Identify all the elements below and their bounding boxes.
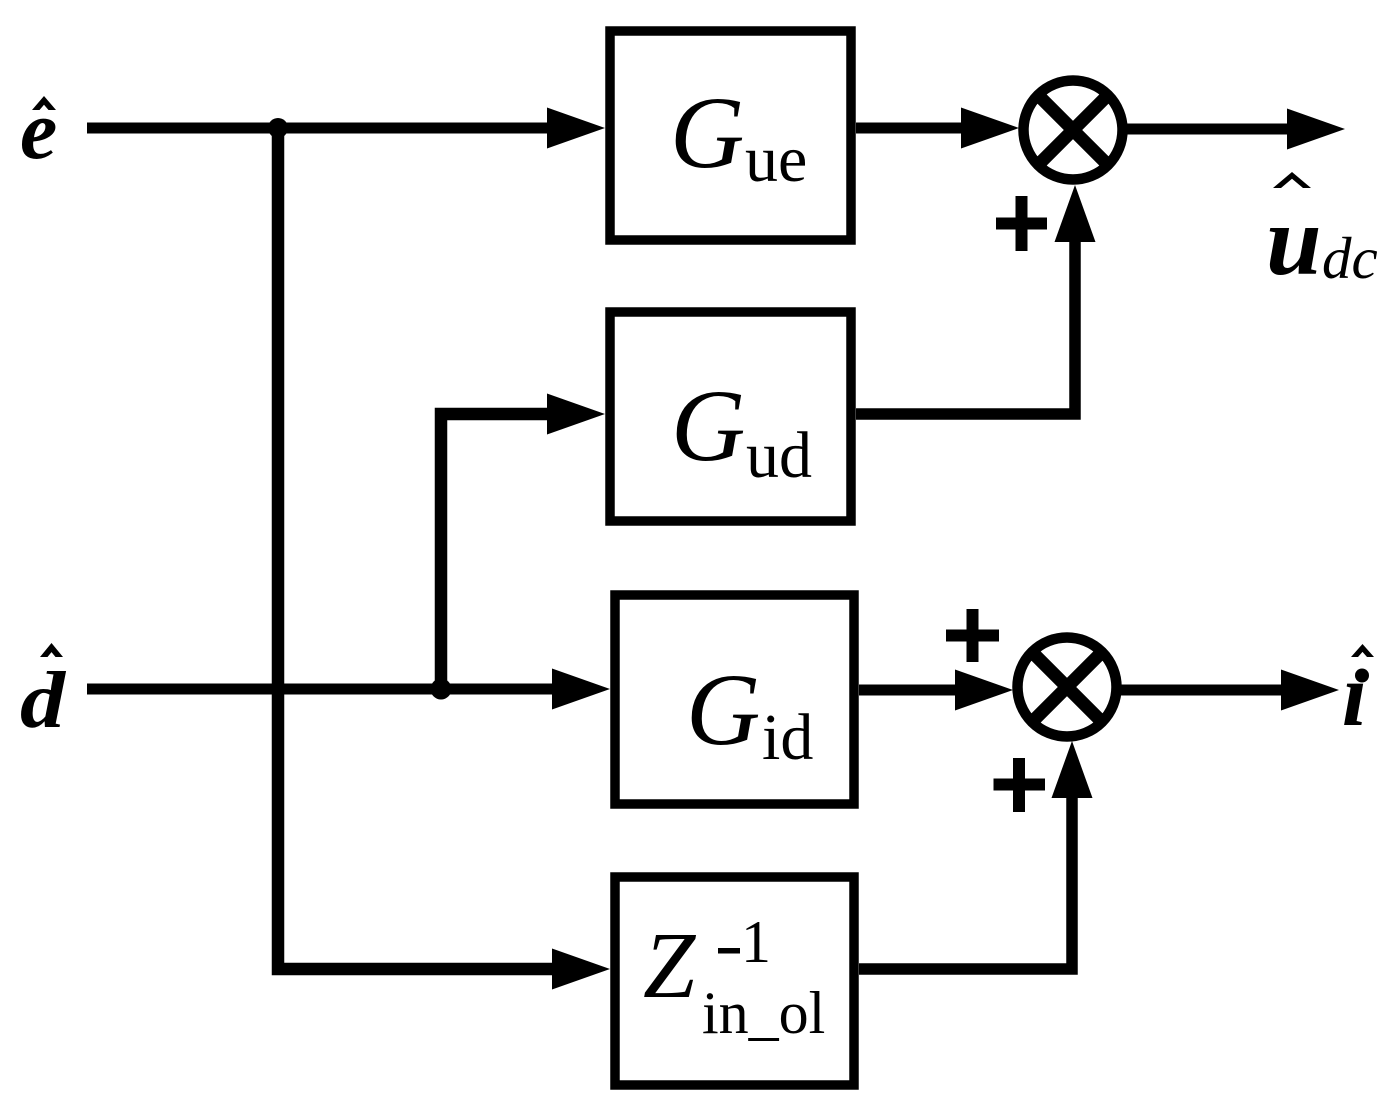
svg-text:in_ol: in_ol	[702, 980, 825, 1046]
svg-text:ue: ue	[745, 123, 807, 196]
svg-text:id: id	[762, 701, 813, 774]
svg-text:ud: ud	[746, 419, 812, 492]
svg-text:Z: Z	[643, 914, 697, 1018]
svg-text:G: G	[686, 653, 760, 767]
svg-text:u: u	[1266, 185, 1322, 296]
svg-text:G: G	[671, 369, 745, 483]
svg-text:e: e	[20, 84, 57, 177]
svg-text:ı: ı	[1342, 646, 1367, 745]
svg-text:G: G	[670, 76, 744, 190]
svg-text:d: d	[20, 657, 66, 745]
svg-text:1: 1	[741, 909, 771, 975]
svg-text:dc: dc	[1322, 225, 1378, 291]
